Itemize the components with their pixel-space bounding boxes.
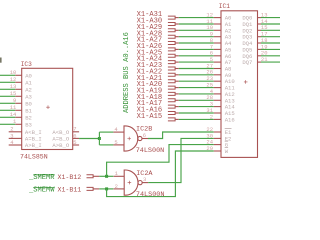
- svg-text:X1-B11: X1-B11: [58, 187, 82, 194]
- X1-A22 pin stub: [175, 74, 179, 76]
- X1-A16 pin stub: [175, 112, 179, 114]
- wire DQ0 to edge: [261, 17, 280, 19]
- wire net to IC3 pin 11: [0, 109, 15, 111]
- svg-text:B2: B2: [25, 114, 32, 121]
- X1-A21 pin stub: [175, 80, 179, 82]
- IC1 pin 10 stub: [214, 29, 221, 31]
- junction SMEMR: [105, 175, 108, 178]
- wire DQ4 to edge: [261, 42, 280, 44]
- X1-A27 pin stub: [175, 42, 179, 44]
- IC2B output bubble: [138, 136, 142, 140]
- svg-text:14: 14: [10, 111, 17, 118]
- wire net to IC3 pin 12: [0, 81, 15, 83]
- wire DQ6 to edge: [261, 55, 280, 57]
- X1-B12 pin stub: [93, 175, 99, 177]
- X1-A15 pin stub: [175, 118, 179, 120]
- junction SMEMW: [105, 187, 108, 190]
- svg-text:9: 9: [13, 97, 16, 104]
- wire X1-A17 to IC1: [179, 106, 214, 108]
- svg-text:5: 5: [114, 139, 117, 146]
- wire X1-A19 to IC1: [179, 93, 214, 95]
- wire X1-A25 to IC1: [179, 55, 214, 57]
- IC1 pin 20 stub: [258, 55, 262, 57]
- IC1 origin cross: [244, 80, 248, 84]
- IC3 pin 11 stub: [15, 109, 21, 111]
- wire X1-A16 to IC1: [179, 112, 214, 114]
- svg-text:A1: A1: [25, 79, 32, 86]
- X1-A19 pin stub: [175, 93, 179, 95]
- wire X1-A26 to IC1: [179, 48, 214, 50]
- IC1 control pin 24 stub: [214, 144, 221, 146]
- svg-text:2: 2: [115, 183, 118, 190]
- connector X1-A17 glyph: [168, 105, 175, 108]
- IC3 pin 10 stub: [15, 74, 21, 76]
- IC2A origin cross: [128, 181, 132, 185]
- IC1 pin 15 stub: [258, 29, 262, 31]
- IC2B input pin 4 stub: [113, 131, 124, 133]
- IC2A output bubble: [138, 181, 142, 185]
- IC3 output pin 6 stub: [73, 137, 79, 139]
- svg-text:X1-B12: X1-B12: [58, 174, 82, 181]
- IC2A input pin 1 stub: [114, 175, 125, 177]
- svg-text:X1-A15: X1-A15: [137, 113, 163, 121]
- wire X1-A20 to IC1: [179, 87, 214, 89]
- IC1 pin 28 stub: [214, 99, 221, 101]
- IC1 pin 8 stub: [214, 42, 221, 44]
- IC1 pin 13 stub: [258, 17, 262, 19]
- junction node: [98, 137, 101, 140]
- wire IC2A output to riser: [148, 138, 214, 182]
- IC3 cascade input pin 4 stub: [9, 144, 22, 146]
- wire X1-A31 to IC1: [179, 17, 214, 19]
- wire DQ3 to edge: [261, 36, 280, 38]
- wire net to IC3 pin 14: [0, 116, 15, 118]
- X1-A23 pin stub: [175, 68, 179, 70]
- svg-text:B3: B3: [25, 121, 32, 128]
- connector X1-A24 glyph: [168, 61, 175, 64]
- svg-text:A3: A3: [25, 93, 32, 100]
- IC3 pin 12 stub: [15, 81, 21, 83]
- IC1 pin 7 stub: [214, 48, 221, 50]
- IC1 pin 17 stub: [258, 36, 262, 38]
- IC1 pin 26 stub: [214, 74, 221, 76]
- IC1 control pin 30 stub: [214, 137, 221, 139]
- svg-text:A2: A2: [25, 86, 32, 93]
- svg-text:10: 10: [10, 69, 17, 76]
- svg-text:DQ7: DQ7: [242, 59, 252, 66]
- svg-text:74LS85N: 74LS85N: [20, 153, 48, 160]
- connector X1-A29 glyph: [168, 29, 175, 32]
- IC1 pin 2 stub: [214, 118, 221, 120]
- IC1 pin 23 stub: [214, 80, 221, 82]
- svg-text:A>B_I: A>B_I: [25, 142, 42, 149]
- IC1 pin 31 stub: [214, 112, 221, 114]
- wire to IC2B pin 4: [99, 131, 113, 133]
- IC1 pin 4 stub: [214, 93, 221, 95]
- svg-text:29: 29: [206, 145, 213, 152]
- IC1 pin 14 stub: [258, 23, 262, 25]
- X1-A18 pin stub: [175, 99, 179, 101]
- wire DQ7 to edge: [261, 61, 280, 63]
- connector X1-A26 glyph: [168, 48, 175, 51]
- X1-A17 pin stub: [175, 106, 179, 108]
- X1-A20 pin stub: [175, 87, 179, 89]
- IC2A output pin 3 stub: [142, 182, 148, 184]
- IC1 pin 3 stub: [214, 106, 221, 108]
- IC3 pin 9 stub: [15, 102, 21, 104]
- wire net to IC3 pin 13: [0, 88, 15, 90]
- svg-text:IC2B: IC2B: [136, 126, 152, 134]
- transistor-gate IC2B 74LS00N NAND body: [124, 126, 138, 151]
- IC1 pin 18 stub: [258, 42, 262, 44]
- wire X1-A28 to IC1: [179, 36, 214, 38]
- IC3 pin 13 stub: [15, 88, 21, 90]
- IC3 output pin 7 stub: [73, 131, 79, 133]
- connector X1-A31 glyph: [168, 16, 175, 19]
- wire X1-A15 to IC1: [179, 118, 214, 120]
- svg-text:IC2A: IC2A: [136, 170, 153, 178]
- wire IC3 A=B_O to junction: [79, 138, 99, 140]
- svg-text:2: 2: [210, 113, 213, 120]
- IC3 output pin 5 stub: [73, 144, 79, 146]
- X1-A25 pin stub: [175, 55, 179, 57]
- wire junction vertical: [98, 132, 100, 145]
- wire IC2B output to riser: [148, 132, 214, 139]
- X1-B11 pin stub: [93, 188, 99, 190]
- wire X1-A29 to IC1: [179, 29, 214, 31]
- IC1 pin 27 stub: [214, 68, 221, 70]
- connector X1-B12 glyph: [87, 175, 94, 178]
- wire X1-A18 to IC1: [179, 99, 214, 101]
- wire DQ5 to edge: [261, 48, 280, 50]
- wire SMEMR riser to IC1 G pin: [107, 145, 214, 177]
- IC3 pin 15 stub: [15, 95, 21, 97]
- connector X1-A16 glyph: [168, 112, 175, 115]
- svg-text:B0: B0: [25, 100, 32, 107]
- wire X1-A30 to IC1: [179, 23, 214, 25]
- transistor-gate IC2A 74LS00N NAND body: [124, 170, 138, 195]
- wire DQ1 to edge: [261, 23, 280, 25]
- svg-text:B1: B1: [25, 107, 32, 114]
- X1-A24 pin stub: [175, 61, 179, 63]
- connector X1-B11 glyph: [87, 187, 94, 190]
- connector X1-A25 glyph: [168, 54, 175, 57]
- wire net to IC3 pin 1: [0, 123, 15, 125]
- svg-text:IC1: IC1: [219, 3, 230, 10]
- svg-text:11: 11: [10, 104, 17, 111]
- svg-text:12: 12: [10, 76, 17, 83]
- wire X1-A27 to IC1: [179, 42, 214, 44]
- IC1 pin 19 stub: [258, 48, 262, 50]
- wire X1-A22 to IC1: [179, 74, 214, 76]
- svg-text:ADDRESS BUS A0..A16: ADDRESS BUS A0..A16: [123, 32, 131, 113]
- X1-A30 pin stub: [175, 23, 179, 25]
- wire SMEMW riser to IC1 W pin: [107, 151, 214, 197]
- connector X1-A30 glyph: [168, 23, 175, 26]
- wire SMEMR to IC2A pin 1: [99, 175, 113, 177]
- IC1 pin 25 stub: [214, 87, 221, 89]
- svg-text:13: 13: [10, 83, 17, 90]
- svg-text:74LS00N: 74LS00N: [136, 147, 165, 155]
- connector X1-A15 glyph: [168, 118, 175, 121]
- IC2B input pin 5 stub: [113, 144, 124, 146]
- connector X1-A19 glyph: [168, 92, 175, 95]
- IC3 pin 1 stub: [15, 123, 21, 125]
- wire net to IC3 pin 9: [0, 102, 15, 104]
- IC1 control pin 29 stub: [214, 150, 221, 152]
- IC1 pin 11 stub: [214, 23, 221, 25]
- wire X1-A24 to IC1: [179, 61, 214, 63]
- svg-text:5: 5: [73, 139, 76, 146]
- connector X1-A22 glyph: [168, 73, 175, 76]
- svg-text:A0: A0: [25, 72, 32, 79]
- IC1 pin 9 stub: [214, 36, 221, 38]
- wire to IC2B pin 5: [99, 144, 113, 146]
- connector X1-A23 glyph: [168, 67, 175, 70]
- connector X1-A28 glyph: [168, 35, 175, 38]
- connector X1-A27 glyph: [168, 42, 175, 45]
- IC1 pin 6 stub: [214, 55, 221, 57]
- connector X1-A20 glyph: [168, 86, 175, 89]
- svg-text:A>B_O: A>B_O: [52, 142, 69, 149]
- op-amp IC3 74LS85N comparator box: [22, 68, 73, 149]
- svg-text:IC3: IC3: [21, 61, 32, 68]
- IC3 origin cross: [46, 105, 50, 109]
- wire DQ2 to edge: [261, 29, 280, 31]
- IC2B origin cross: [127, 137, 131, 141]
- svg-text:15: 15: [10, 90, 17, 97]
- X1-A29 pin stub: [175, 29, 179, 31]
- svg-text:74LS00N: 74LS00N: [136, 191, 165, 199]
- IC1 control pin 22 stub: [214, 131, 221, 133]
- IC2A input pin 2 stub: [114, 188, 125, 190]
- wire SMEMW to IC2A pin 2: [99, 188, 113, 190]
- svg-text:A16: A16: [225, 116, 235, 123]
- X1-A28 pin stub: [175, 36, 179, 38]
- X1-A26 pin stub: [175, 48, 179, 50]
- IC1 pin 5 stub: [214, 61, 221, 63]
- wire X1-A23 to IC1: [179, 68, 214, 70]
- svg-text:21: 21: [261, 56, 268, 63]
- IC3 cascade input pin 3 stub: [9, 137, 22, 139]
- wire net to IC3 pin 10: [0, 74, 15, 76]
- X1-A31 pin stub: [175, 17, 179, 19]
- wire X1-A21 to IC1: [179, 80, 214, 82]
- IC1 pin 12 stub: [214, 17, 221, 19]
- IC1 pin 21 stub: [258, 61, 262, 63]
- connector X1-A21 glyph: [168, 80, 175, 83]
- IC3 cascade input pin 2 stub: [9, 131, 22, 133]
- IC2B output pin 6 stub: [142, 138, 148, 140]
- IC1 628128 SRAM box: [221, 11, 258, 158]
- IC3 pin 14 stub: [15, 116, 21, 118]
- svg-text:_SMEMW: _SMEMW: [28, 187, 55, 195]
- connector X1-A18 glyph: [168, 99, 175, 102]
- edge mark cut-off label at left: [0, 58, 2, 63]
- wire net to IC3 pin 15: [0, 95, 15, 97]
